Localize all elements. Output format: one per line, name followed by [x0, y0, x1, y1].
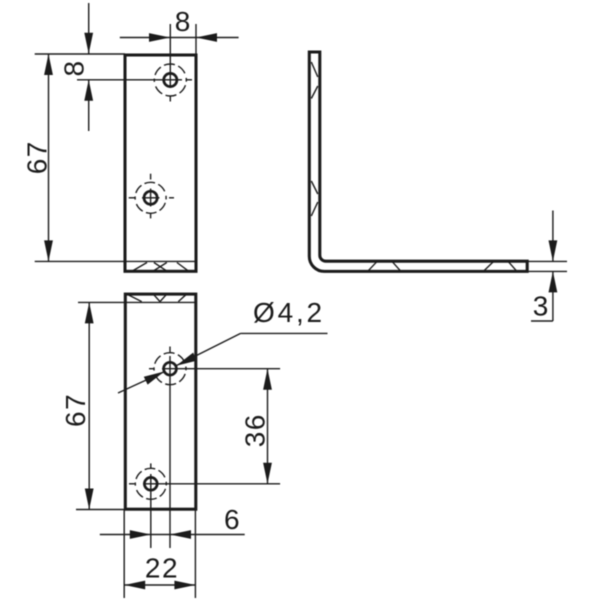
svg-text:6: 6 — [224, 504, 240, 535]
svg-text:8: 8 — [175, 6, 191, 37]
svg-text:3: 3 — [533, 291, 549, 322]
svg-text:67: 67 — [22, 140, 53, 174]
svg-text:Ø4,2: Ø4,2 — [253, 297, 325, 328]
svg-text:67: 67 — [60, 393, 91, 427]
svg-text:22: 22 — [145, 553, 179, 584]
svg-text:8: 8 — [59, 61, 90, 77]
svg-text:36: 36 — [240, 413, 271, 447]
